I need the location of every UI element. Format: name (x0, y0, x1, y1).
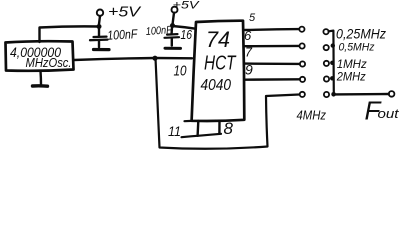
bottom edge overshoot (185, 120, 192, 122)
svg-text:0,25MHz: 0,25MHz (336, 27, 386, 42)
capacitor C2 100nF (170, 27, 173, 34)
+5V terminal 1 (97, 10, 103, 16)
pin 11 stub (196, 121, 199, 136)
pin 8 stub (218, 121, 221, 134)
svg-text:7: 7 (245, 46, 253, 60)
svg-text:6: 6 (244, 28, 252, 43)
svg-text:HCT: HCT (204, 53, 237, 75)
svg-text:2MHz: 2MHz (336, 72, 366, 84)
svg-text:4MHz: 4MHz (297, 108, 327, 123)
svg-text:5: 5 (249, 12, 256, 24)
node (osc output junction) (152, 56, 157, 61)
svg-text:+5V: +5V (173, 0, 201, 12)
svg-text:100nF: 100nF (107, 26, 139, 43)
wire osc VCC to +5V rail (40, 26, 99, 42)
wire +5V to pin 16 (173, 26, 196, 29)
svg-text:9: 9 (245, 62, 253, 78)
terminal (pin7) (300, 61, 305, 66)
oscillator X1 box 4,000000 MHz Osc. (6, 41, 74, 71)
svg-text:MHzOsc.: MHzOsc. (26, 56, 72, 70)
ground (C2) (165, 47, 181, 50)
ground (C1) (94, 48, 110, 51)
+5V terminal 2 (172, 7, 178, 13)
terminal (select 0.5MHz) (324, 45, 329, 50)
wire pin 6 output (245, 45, 299, 48)
node (junction +5V / C2 / pin16) (170, 23, 175, 28)
terminal (pin6) (300, 43, 305, 48)
terminal (pin9) (300, 77, 305, 82)
wire 4MHz loop (down, across bottom, up, to terminal) (156, 58, 300, 149)
node (junction +5V rail / C1) (97, 24, 102, 29)
capacitor C1 100nF (98, 28, 100, 36)
svg-text:8: 8 (224, 119, 234, 138)
svg-text:4040: 4040 (201, 77, 232, 94)
terminal (select 1MHz) (324, 61, 329, 66)
node bus row4 (330, 76, 334, 80)
svg-text:0,5MHz: 0,5MHz (339, 41, 375, 53)
wire pin 7 output (245, 62, 300, 65)
wire select bus (329, 31, 334, 95)
node bus row2 (331, 43, 335, 47)
svg-text:16: 16 (181, 27, 193, 42)
node bus row3 (330, 61, 334, 65)
IC U1 74HCT4040 box (192, 21, 245, 121)
wire pin 5 output (245, 28, 299, 31)
node bus row5 (331, 92, 336, 97)
terminal (select 4MHz) (324, 92, 329, 97)
svg-text:out: out (378, 106, 400, 121)
wire bus to Fout (334, 93, 389, 96)
svg-text:74: 74 (206, 27, 230, 52)
svg-text:10: 10 (174, 63, 188, 80)
terminal Fout (389, 91, 395, 97)
ground (oscillator) (39, 71, 42, 85)
svg-text:1MHz: 1MHz (337, 57, 367, 71)
svg-text:11: 11 (168, 123, 181, 139)
svg-text:100nF: 100nF (145, 24, 173, 38)
wire pin 9 output (245, 78, 300, 81)
terminal (pin5) (299, 27, 304, 32)
wire osc output to pin 10 (74, 58, 192, 60)
wire reset tie 11-8 (182, 134, 222, 137)
terminal (select 2MHz) (324, 76, 329, 81)
terminal (select 0.25MHz) (323, 29, 328, 34)
svg-text:+5V: +5V (108, 4, 142, 21)
terminal (4MHz) (300, 92, 305, 97)
